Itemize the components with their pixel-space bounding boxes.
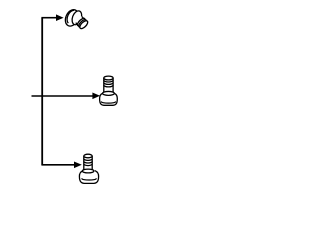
wire: vertical trunk (41, 18, 43, 165)
wire: bottom leader (41, 164, 74, 166)
thread arcs (104, 80, 113, 87)
shaft top cap (104, 76, 113, 80)
shaft end cap (79, 19, 89, 29)
wire: top leader (41, 17, 57, 19)
thread ridge 1 (76, 17, 86, 27)
icon: isometric bolt (top) (63, 8, 89, 30)
icon: upright bolt (bottom) (79, 154, 98, 183)
arrowhead bottom (74, 162, 82, 169)
head bottom face (82, 179, 96, 180)
shaft (84, 156, 92, 170)
head back disc (63, 8, 81, 29)
thread ridge 2 (78, 18, 88, 28)
shaft root (75, 16, 89, 30)
shaft top cap (84, 154, 92, 158)
head front face (70, 10, 83, 27)
wire: middle leader (32, 95, 94, 97)
shaft (104, 78, 113, 93)
collar (82, 169, 94, 173)
thread arcs (84, 159, 92, 166)
head bottom face (101, 102, 115, 103)
arrowhead top (56, 14, 64, 21)
collar (103, 91, 115, 95)
head rim arc (65, 9, 74, 23)
arrowhead middle (92, 93, 100, 100)
head body (79, 171, 98, 184)
head body (100, 94, 118, 106)
icon: upright bolt (middle) (100, 76, 118, 105)
